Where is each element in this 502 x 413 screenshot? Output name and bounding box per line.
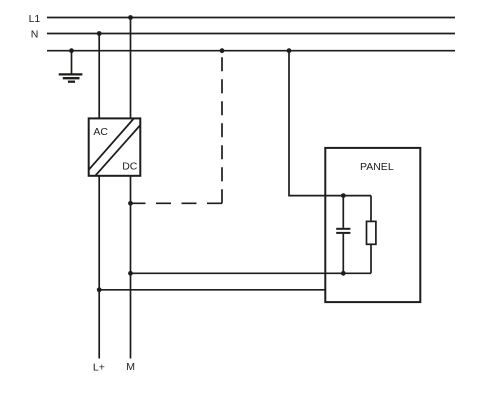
node PE ground tap <box>69 48 74 53</box>
wire L1 to supply <box>130 18 132 119</box>
node capacitor bottom <box>341 271 346 276</box>
wire dashed control link horizontal <box>131 202 223 204</box>
node PE panel tap <box>287 48 292 53</box>
svg-text:DC: DC <box>122 161 138 173</box>
wire PE bus <box>47 50 455 52</box>
wire L+ to panel <box>99 289 325 291</box>
wire panel feed <box>289 51 371 196</box>
capacitor C1 <box>336 196 350 274</box>
svg-text:AC: AC <box>93 126 108 138</box>
ground <box>59 51 83 82</box>
node capacitor top <box>341 193 346 198</box>
node N tap <box>97 31 102 36</box>
node L1 tap <box>128 15 133 20</box>
svg-text:M: M <box>126 361 135 373</box>
wire M vertical <box>130 176 132 359</box>
wire L1 bus <box>47 17 455 19</box>
node PE dashed tap <box>220 48 225 53</box>
wire L+ vertical <box>98 176 100 359</box>
wire M to panel <box>131 272 372 274</box>
power supply U1 <box>89 118 141 175</box>
wire dashed control link vertical <box>221 51 223 204</box>
node L+ junction <box>97 287 102 292</box>
node M junction <box>128 271 133 276</box>
svg-text:L1: L1 <box>29 13 41 25</box>
svg-text:N: N <box>31 29 39 41</box>
svg-text:PANEL: PANEL <box>360 161 394 173</box>
panel <box>325 148 420 302</box>
svg-text:L+: L+ <box>93 362 105 374</box>
node dashed link junction <box>128 201 133 206</box>
wire N to supply <box>98 34 100 119</box>
wire N bus <box>47 33 455 35</box>
resistor R1 <box>367 196 376 274</box>
